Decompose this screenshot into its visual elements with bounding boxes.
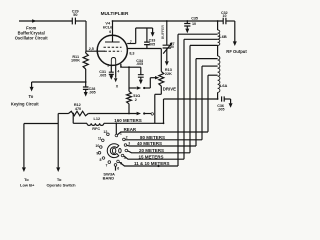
svg-text:4: 4: [117, 70, 119, 74]
svg-text:4: 4: [124, 156, 126, 160]
svg-text:9: 9: [96, 151, 98, 155]
svg-text:L12: L12: [94, 117, 101, 121]
svg-text:80 METERS: 80 METERS: [140, 135, 165, 140]
svg-text:100K: 100K: [71, 59, 80, 63]
svg-text:RFC: RFC: [92, 127, 100, 131]
svg-text:8: 8: [100, 158, 102, 162]
svg-text:2: 2: [126, 135, 128, 139]
svg-text:11 & 10 METERS: 11 & 10 METERS: [134, 161, 170, 166]
svg-text:7: 7: [106, 163, 108, 167]
svg-text:Low B+: Low B+: [20, 182, 35, 187]
svg-text:10: 10: [223, 14, 227, 18]
svg-text:3: 3: [128, 142, 130, 146]
svg-text:BUFFER: BUFFER: [161, 25, 165, 39]
svg-text:L6B: L6B: [219, 34, 227, 39]
svg-text:50: 50: [73, 13, 77, 17]
svg-text:.005: .005: [89, 91, 96, 95]
svg-text:160 METERS: 160 METERS: [114, 118, 142, 123]
svg-text:50: 50: [170, 45, 174, 49]
svg-text:To: To: [29, 94, 34, 99]
svg-text:.005: .005: [218, 108, 225, 112]
svg-text:Keying Circuit: Keying Circuit: [11, 102, 39, 107]
svg-text:6CL6: 6CL6: [103, 24, 113, 29]
svg-text:10: 10: [95, 144, 99, 148]
svg-text:6: 6: [109, 30, 111, 34]
svg-text:7: 7: [130, 40, 132, 44]
svg-text:12: 12: [103, 130, 107, 134]
svg-text:20 METERS: 20 METERS: [139, 148, 164, 153]
svg-text:RF Output: RF Output: [226, 49, 247, 54]
svg-text:6: 6: [117, 167, 119, 171]
svg-text:8,3: 8,3: [129, 51, 134, 55]
svg-text:15 METERS: 15 METERS: [139, 154, 164, 159]
svg-text:Oscillator Circuit: Oscillator Circuit: [15, 36, 49, 41]
svg-text:5: 5: [120, 161, 122, 165]
svg-text:BAND: BAND: [103, 176, 115, 181]
svg-text:2,5: 2,5: [89, 47, 94, 51]
svg-text:.005: .005: [99, 74, 106, 78]
svg-text:2: 2: [135, 98, 137, 102]
svg-text:C35: C35: [191, 17, 198, 21]
svg-text:MULTIPLIER: MULTIPLIER: [101, 11, 129, 16]
svg-text:.005: .005: [148, 42, 155, 46]
svg-text:.005: .005: [136, 62, 143, 66]
svg-text:3: 3: [107, 64, 109, 68]
svg-text:22K: 22K: [165, 72, 172, 76]
svg-text:Operate Switch: Operate Switch: [46, 182, 76, 187]
svg-text:REAR: REAR: [124, 127, 137, 132]
svg-text:10: 10: [192, 22, 196, 26]
svg-text:1: 1: [120, 64, 122, 68]
svg-text:11: 11: [98, 136, 102, 140]
svg-text:L6A: L6A: [220, 83, 228, 88]
svg-text:DRIVE: DRIVE: [163, 86, 176, 91]
svg-text:470: 470: [75, 107, 81, 111]
svg-text:1: 1: [120, 132, 122, 136]
svg-text:40 METERS: 40 METERS: [137, 141, 162, 146]
